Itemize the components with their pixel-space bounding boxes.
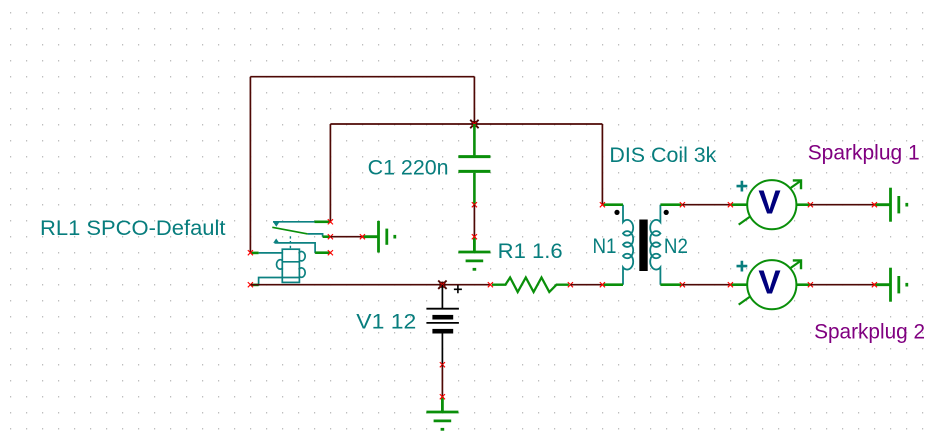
- wire: [250, 76, 474, 78]
- wire: [249, 77, 251, 253]
- wire: [441, 365, 443, 397]
- svg-text:Sparkplug 1: Sparkplug 1: [808, 141, 920, 165]
- ground (sparkplug 1): [874, 188, 906, 222]
- wire: [570, 284, 602, 286]
- svg-text:C1 220n: C1 220n: [368, 155, 449, 179]
- ground (relay pole): [362, 221, 394, 253]
- voltmeter M2: [730, 283, 747, 286]
- junction (top node): [471, 121, 477, 127]
- ground (sparkplug 2): [874, 268, 906, 302]
- svg-text:RL1 SPCO-Default: RL1 SPCO-Default: [40, 216, 226, 240]
- svg-text:DIS Coil 3k: DIS Coil 3k: [609, 143, 716, 167]
- svg-text:V: V: [758, 264, 780, 301]
- transformer phase dot N1: [614, 210, 619, 215]
- wire: [810, 204, 874, 206]
- resistor R1: [492, 278, 569, 293]
- relay pin ends: [328, 219, 333, 224]
- relay RL1 coil: [251, 249, 305, 285]
- transformer primary N1: [623, 205, 633, 285]
- transformer core: [639, 220, 647, 272]
- ground (C1): [458, 237, 490, 270]
- transformer secondary N2: [650, 205, 660, 285]
- svg-text:N2: N2: [664, 234, 688, 258]
- wire: [682, 204, 730, 206]
- svg-text:Sparkplug 2: Sparkplug 2: [814, 320, 925, 344]
- svg-text:V1 12: V1 12: [356, 310, 416, 334]
- wire: [330, 236, 362, 238]
- svg-text:R1 1.6: R1 1.6: [498, 239, 563, 263]
- voltmeter M1: [730, 203, 747, 206]
- wire: [473, 77, 475, 124]
- svg-text:V: V: [758, 184, 780, 221]
- wire: [810, 284, 874, 286]
- capacitor C1: [458, 124, 490, 205]
- node junction: [439, 282, 445, 288]
- wire: [601, 124, 603, 205]
- battery V1: [426, 285, 462, 365]
- wire: [330, 123, 602, 125]
- wire: [473, 205, 475, 237]
- wire: [329, 124, 331, 222]
- relay pin stubs: [315, 221, 331, 224]
- transformer phase dot N2: [664, 210, 669, 215]
- ground (battery): [426, 397, 458, 430]
- relay RL1 switch: [272, 222, 322, 253]
- wire: [682, 284, 730, 286]
- svg-text:N1: N1: [593, 234, 617, 258]
- wire: [250, 284, 490, 286]
